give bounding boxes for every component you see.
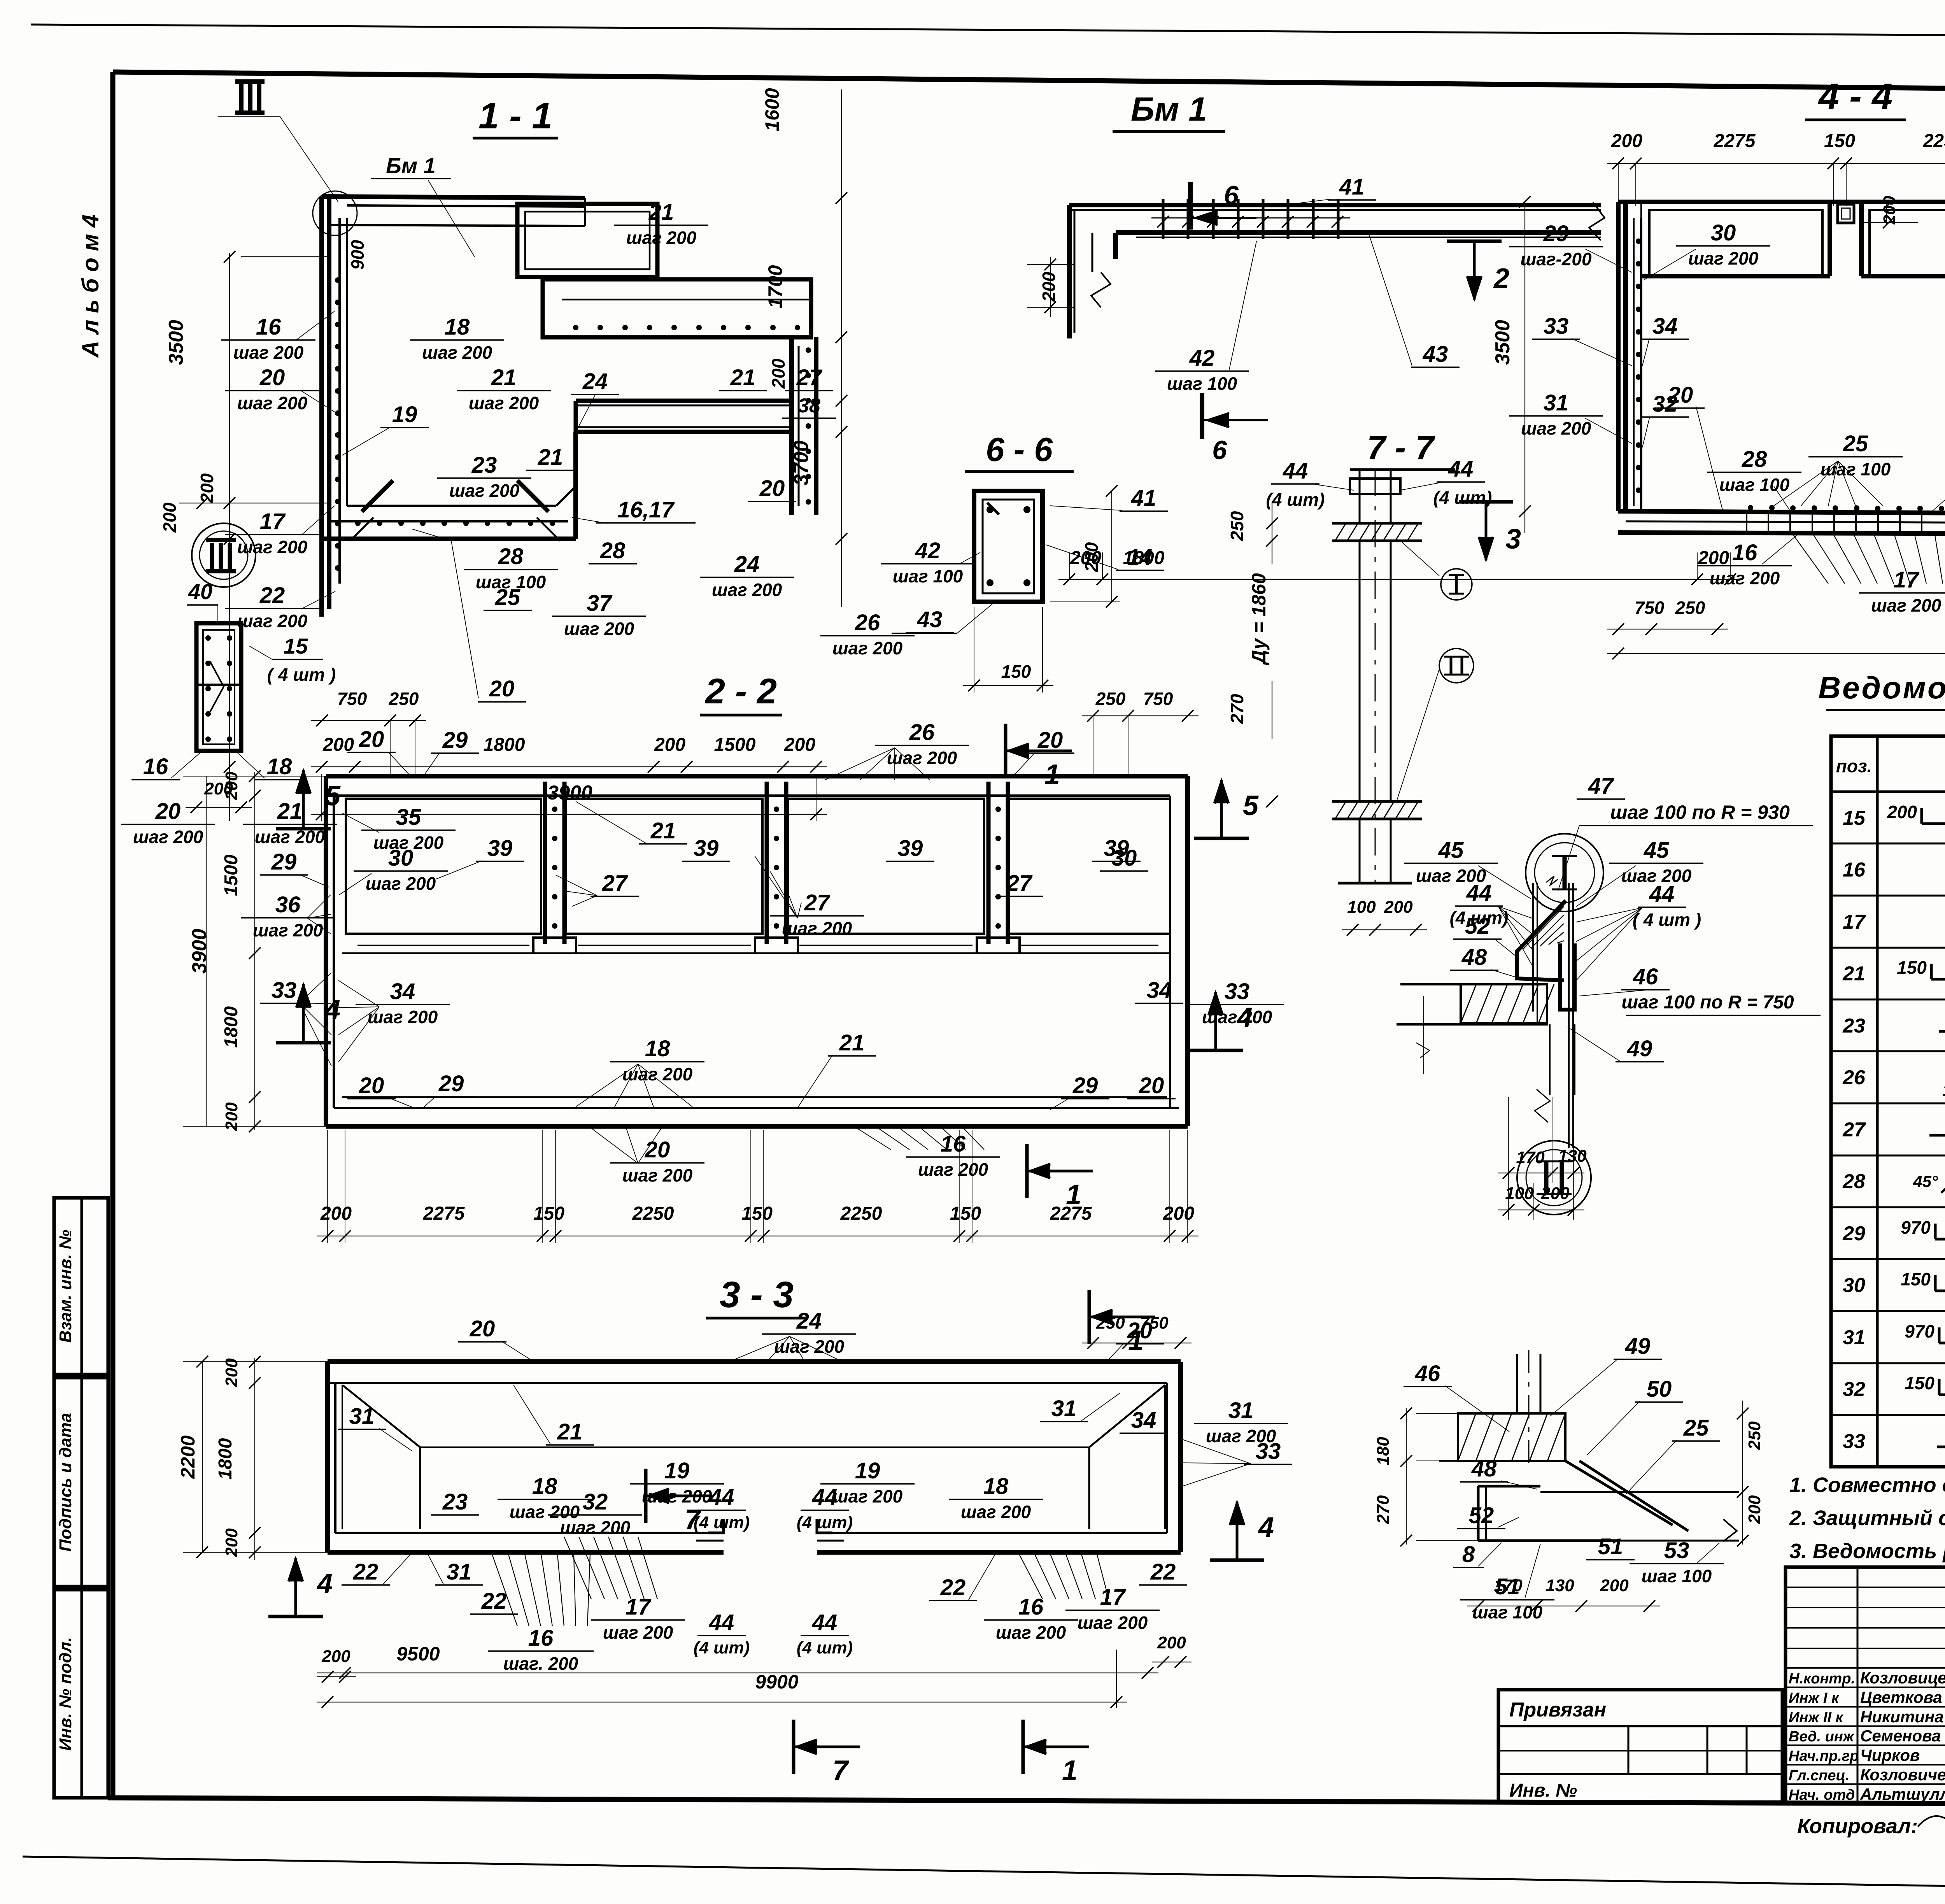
svg-text:( 4 шт ): ( 4 шт ): [1633, 910, 1701, 930]
svg-text:Козловичер: Козловичер: [1860, 1765, 1945, 1784]
section 3-3 middle joint hooks: [696, 1519, 844, 1541]
svg-text:шаг 200: шаг 200: [603, 1622, 673, 1643]
svg-text:200: 200: [1039, 272, 1059, 302]
node II labels: [1374, 1334, 1764, 1622]
svg-text:100: 100: [1347, 898, 1376, 917]
section 4-4 bay panel 2: [1861, 210, 1945, 276]
svg-text:25: 25: [495, 585, 520, 610]
section 4-4 middle wall with embedded part: [1830, 196, 1918, 276]
svg-text:Ведомость деталей: Ведомость деталей: [1818, 670, 1945, 705]
svg-text:4 - 4: 4 - 4: [1818, 76, 1892, 117]
svg-text:200: 200: [1163, 1203, 1194, 1224]
svg-text:200: 200: [222, 771, 241, 801]
svg-text:40: 40: [188, 579, 212, 604]
svg-text:250: 250: [1675, 598, 1705, 618]
svg-text:23: 23: [1842, 1015, 1865, 1037]
svg-text:49: 49: [1627, 1036, 1652, 1061]
svg-text:150: 150: [1942, 1081, 1945, 1100]
svg-text:100: 100: [1505, 1184, 1534, 1203]
svg-text:37: 37: [587, 591, 613, 616]
beam Bm1 title: [1113, 91, 1225, 131]
svg-text:шаг-200: шаг-200: [1520, 249, 1592, 269]
section 1-1 roman III mark: [218, 82, 338, 202]
svg-text:Бм 1: Бм 1: [1131, 91, 1207, 128]
svg-text:6: 6: [1212, 435, 1227, 465]
svg-text:(4 шт): (4 шт): [694, 1638, 750, 1657]
svg-text:21: 21: [839, 1030, 865, 1055]
section 3-3 dim 9500: [317, 1643, 1158, 1679]
section 1-1 bottom slab: [322, 432, 576, 541]
svg-text:45°: 45°: [1913, 1172, 1938, 1190]
svg-text:шаг 200: шаг 200: [449, 480, 520, 501]
svg-text:18: 18: [267, 754, 292, 779]
beam Bm1 dim chain: [1058, 548, 1741, 585]
svg-text:750: 750: [1143, 689, 1173, 709]
svg-text:16: 16: [1732, 540, 1758, 565]
svg-text:900: 900: [347, 240, 368, 270]
section 2-2 bottom dim chain: [317, 1130, 1199, 1243]
svg-text:9500: 9500: [396, 1643, 440, 1665]
svg-text:45: 45: [1644, 838, 1669, 863]
svg-text:200: 200: [197, 473, 217, 503]
svg-text:1600: 1600: [761, 88, 783, 131]
svg-text:Нач.пр.гр: Нач.пр.гр: [1789, 1748, 1859, 1764]
svg-text:53: 53: [1664, 1538, 1689, 1563]
svg-text:27: 27: [602, 871, 628, 896]
svg-text:шаг 200: шаг 200: [1710, 568, 1780, 588]
svg-text:26: 26: [1842, 1066, 1866, 1089]
svg-text:21: 21: [538, 445, 563, 470]
svg-text:Инж II к: Инж II к: [1789, 1709, 1843, 1726]
svg-text:9900: 9900: [755, 1671, 798, 1693]
svg-text:19: 19: [664, 1458, 690, 1483]
svg-text:шаг 200: шаг 200: [1688, 248, 1759, 268]
svg-text:5: 5: [325, 780, 341, 812]
node II circle: [1517, 1141, 1591, 1215]
svg-text:44: 44: [709, 1610, 734, 1635]
left margin stamp strip: [54, 1198, 108, 1798]
svg-text:Привязан: Привязан: [1509, 1699, 1606, 1721]
svg-text:( 4 шт ): ( 4 шт ): [267, 664, 336, 685]
svg-text:шаг 200: шаг 200: [422, 342, 492, 363]
svg-text:7 - 7: 7 - 7: [1367, 429, 1435, 466]
svg-text:20: 20: [489, 676, 515, 701]
svg-text:шаг 200: шаг 200: [133, 827, 203, 847]
svg-text:50: 50: [1647, 1376, 1672, 1402]
svg-text:2. Защитный слой бетона: 2. Защитный слой бетона - 25 мм: [1789, 1506, 1945, 1530]
svg-text:2: 2: [1493, 263, 1509, 294]
svg-text:33: 33: [1544, 314, 1569, 339]
svg-text:27: 27: [1006, 871, 1033, 896]
svg-text:15: 15: [1843, 807, 1866, 829]
privyazan block: [1498, 1690, 1782, 1802]
svg-text:52: 52: [1465, 913, 1490, 939]
svg-text:Чирков: Чирков: [1860, 1746, 1920, 1764]
svg-text:3700: 3700: [790, 440, 813, 486]
svg-text:16: 16: [1018, 1594, 1044, 1620]
svg-text:28: 28: [1742, 447, 1767, 472]
bottom annotations: [1797, 1808, 1945, 1839]
svg-text:шаг 200: шаг 200: [996, 1622, 1066, 1643]
svg-text:шаг 200: шаг 200: [366, 873, 436, 894]
svg-text:20: 20: [155, 799, 181, 824]
svg-text:36: 36: [275, 892, 301, 917]
section 3-3 bottom dims 200: [317, 1633, 1192, 1683]
svg-text:38: 38: [798, 394, 820, 417]
personnel table: [1786, 1567, 1945, 1804]
svg-text:250: 250: [389, 689, 419, 709]
section 3-3 left dim chain: [177, 1356, 331, 1560]
section 3-3 outer shell: [328, 1362, 1181, 1552]
node I detail drawing: [1397, 876, 1575, 1148]
section 4-4 top slab: [1618, 200, 1945, 204]
svg-text:1 - 1: 1 - 1: [478, 95, 552, 137]
svg-text:42: 42: [1189, 345, 1215, 371]
svg-text:шаг 200: шаг 200: [1078, 1613, 1148, 1633]
section 2-2 interior panels: [342, 782, 1170, 953]
svg-text:Инв. № подл.: Инв. № подл.: [56, 1637, 75, 1751]
svg-text:2275: 2275: [1050, 1203, 1092, 1224]
svg-text:6: 6: [1224, 181, 1239, 210]
detail column 15: [121, 623, 337, 847]
svg-text:3: 3: [1505, 524, 1521, 555]
svg-text:21: 21: [491, 365, 517, 390]
svg-text:Нач. отд: Нач. отд: [1789, 1787, 1855, 1803]
beam Bm1 labels: [1027, 174, 1460, 394]
svg-text:22: 22: [940, 1575, 966, 1600]
svg-text:1700: 1700: [764, 265, 786, 308]
svg-text:21: 21: [277, 799, 303, 824]
svg-text:4: 4: [324, 994, 340, 1026]
section 1-1 left wall: [322, 196, 347, 617]
svg-text:Семенова: Семенова: [1860, 1727, 1941, 1745]
svg-text:31: 31: [1051, 1396, 1077, 1421]
svg-text:2200: 2200: [177, 1435, 199, 1479]
svg-text:200: 200: [784, 735, 815, 755]
svg-text:(4 шт): (4 шт): [797, 1638, 853, 1657]
svg-text:25: 25: [1843, 431, 1868, 456]
svg-text:970: 970: [1901, 1217, 1931, 1238]
svg-text:шаг 200: шаг 200: [622, 1165, 693, 1185]
svg-text:44: 44: [812, 1485, 838, 1510]
svg-text:1800: 1800: [221, 1006, 242, 1048]
section 3-3 dim 9900: [317, 1650, 1127, 1708]
section 6-6 labels: [881, 485, 1168, 693]
svg-text:39: 39: [487, 836, 513, 861]
svg-text:48: 48: [1471, 1456, 1497, 1481]
svg-text:3900: 3900: [188, 929, 211, 974]
svg-text:шаг 200: шаг 200: [469, 393, 539, 413]
svg-text:750: 750: [337, 689, 367, 709]
svg-text:Копировал:: Копировал:: [1797, 1815, 1918, 1838]
svg-text:шаг 200: шаг 200: [368, 1007, 438, 1027]
svg-text:47: 47: [1588, 773, 1614, 799]
svg-text:27: 27: [1842, 1119, 1866, 1141]
section 2-2 left dim chain: [183, 770, 329, 1132]
section 1-1 right dim chain: [761, 88, 847, 607]
svg-text:46: 46: [1633, 964, 1658, 989]
svg-text:2275: 2275: [1714, 131, 1756, 151]
svg-text:150: 150: [1897, 957, 1927, 978]
svg-text:16: 16: [1843, 859, 1866, 881]
svg-text:970: 970: [1905, 1321, 1934, 1341]
svg-text:2 - 2: 2 - 2: [704, 671, 777, 711]
section 7-7 labels: [1227, 456, 1492, 936]
svg-text:200: 200: [321, 1647, 350, 1666]
svg-text:29: 29: [1543, 221, 1569, 246]
svg-text:46: 46: [1415, 1361, 1440, 1386]
svg-text:200: 200: [1745, 1495, 1764, 1524]
svg-text:6 - 6: 6 - 6: [986, 431, 1053, 468]
svg-text:Гл.спец.: Гл.спец.: [1789, 1767, 1850, 1784]
svg-text:шаг 200: шаг 200: [560, 1517, 631, 1538]
details table left: [1831, 736, 1945, 1467]
svg-text:200: 200: [1157, 1633, 1186, 1652]
svg-text:31: 31: [447, 1559, 472, 1585]
svg-text:шаг 200: шаг 200: [712, 580, 782, 600]
svg-text:Цветкова: Цветкова: [1860, 1688, 1942, 1706]
svg-text:1: 1: [1062, 1755, 1078, 1786]
svg-text:2275: 2275: [423, 1203, 465, 1224]
svg-text:17: 17: [1100, 1585, 1126, 1610]
section 2-2 outer shell: [326, 776, 1188, 1126]
svg-text:18: 18: [983, 1474, 1009, 1499]
svg-text:20: 20: [259, 365, 285, 390]
section 1-1 right wall: [792, 337, 816, 515]
svg-text:34: 34: [1131, 1408, 1156, 1433]
svg-text:24: 24: [796, 1308, 822, 1334]
section 1-1 labels right: [347, 153, 915, 702]
section 3-3 labels: [268, 1290, 1292, 1786]
svg-text:18: 18: [645, 1036, 670, 1061]
svg-text:18: 18: [532, 1474, 557, 1499]
svg-text:32: 32: [1843, 1378, 1865, 1401]
svg-text:750: 750: [1635, 598, 1665, 618]
svg-text:150: 150: [741, 1203, 773, 1224]
svg-text:44: 44: [1466, 880, 1492, 906]
svg-text:3. Ведомость расхода стали: 3. Ведомость расхода стали см. л. КЖ - 9: [1789, 1539, 1945, 1563]
svg-text:22: 22: [259, 583, 285, 608]
notes: [1789, 1473, 1945, 1563]
node II detail drawing: [1439, 1350, 1739, 1541]
svg-text:750: 750: [1140, 1313, 1169, 1332]
svg-text:4: 4: [1236, 1002, 1253, 1033]
svg-text:шаг 100 по R = 750: шаг 100 по R = 750: [1621, 992, 1794, 1013]
svg-text:43: 43: [1423, 342, 1448, 367]
svg-text:шаг 200: шаг 200: [918, 1159, 988, 1180]
section title 6-6: [965, 431, 1074, 472]
svg-text:42: 42: [915, 538, 941, 563]
svg-text:1500: 1500: [221, 854, 242, 896]
svg-text:21: 21: [730, 365, 756, 390]
svg-text:200: 200: [768, 358, 789, 389]
svg-text:24: 24: [582, 369, 608, 394]
svg-text:3 - 3: 3 - 3: [720, 1274, 794, 1315]
svg-text:шаг 100: шаг 100: [1167, 373, 1237, 394]
section title 2-2: [700, 671, 782, 715]
node I circle: [1526, 834, 1603, 912]
svg-text:1800: 1800: [215, 1438, 236, 1480]
svg-text:шаг 200: шаг 200: [832, 638, 903, 658]
svg-text:43: 43: [917, 607, 943, 632]
section 1-1 right upper panel: [517, 204, 657, 277]
svg-text:21: 21: [557, 1419, 583, 1445]
section 1-1 labels left: [221, 311, 429, 631]
section 4-4 bottom slab: [1618, 505, 1945, 534]
svg-text:52: 52: [1469, 1503, 1494, 1528]
svg-text:29: 29: [271, 849, 297, 875]
svg-text:25: 25: [1683, 1415, 1709, 1441]
section 1-1 middle slab: [576, 401, 792, 432]
svg-text:7: 7: [832, 1755, 849, 1786]
svg-text:33: 33: [1256, 1439, 1281, 1464]
svg-text:44: 44: [1649, 882, 1675, 907]
svg-text:44: 44: [812, 1610, 838, 1635]
svg-text:3500: 3500: [1491, 320, 1514, 365]
svg-text:Ду = 1860: Ду = 1860: [1248, 573, 1270, 666]
section 3-3 top right step dims: [1082, 1313, 1192, 1349]
svg-text:31: 31: [1843, 1326, 1865, 1349]
svg-text:29: 29: [1072, 1073, 1098, 1098]
svg-text:150: 150: [950, 1203, 981, 1224]
svg-text:А л ь б о м 4: А л ь б о м 4: [77, 214, 103, 358]
svg-text:3500: 3500: [165, 320, 187, 365]
svg-text:270: 270: [1374, 1495, 1393, 1524]
section 1-1 overall dim 3900: [311, 774, 827, 821]
svg-text:19: 19: [392, 402, 417, 427]
svg-text:39: 39: [898, 836, 923, 861]
svg-text:34: 34: [390, 979, 415, 1004]
svg-text:поз.: поз.: [1836, 756, 1872, 776]
svg-text:180: 180: [1374, 1437, 1393, 1466]
svg-text:2250: 2250: [1923, 131, 1945, 151]
svg-text:250: 250: [1745, 1421, 1764, 1450]
details list title: [1818, 670, 1945, 710]
svg-text:20: 20: [359, 727, 384, 752]
svg-text:4: 4: [1258, 1512, 1274, 1543]
svg-text:14: 14: [1127, 545, 1153, 570]
svg-text:200: 200: [159, 502, 180, 533]
svg-text:шаг 200: шаг 200: [626, 228, 697, 248]
svg-text:200: 200: [1600, 1576, 1629, 1595]
svg-text:2250: 2250: [632, 1203, 674, 1224]
svg-text:200: 200: [222, 1102, 241, 1131]
svg-text:44: 44: [1448, 456, 1474, 482]
svg-text:шаг 200: шаг 200: [253, 920, 323, 940]
svg-text:150: 150: [533, 1203, 564, 1224]
svg-text:(4 шт): (4 шт): [694, 1513, 750, 1532]
detail III circle: [187, 523, 256, 622]
svg-text:3900: 3900: [547, 782, 592, 804]
svg-text:150: 150: [1901, 1269, 1931, 1289]
svg-text:1. Совместно с данным см. л: 1. Совместно с данным см. л. КЖ - 6,7,9: [1789, 1473, 1945, 1497]
svg-text:28: 28: [1842, 1170, 1865, 1193]
svg-text:41: 41: [1339, 174, 1365, 200]
svg-text:шаг 200: шаг 200: [237, 393, 308, 413]
sections 4-4/5-5 top dim chain: [1607, 131, 1945, 206]
svg-text:26: 26: [909, 720, 935, 745]
svg-text:48: 48: [1461, 945, 1487, 970]
svg-text:33: 33: [1843, 1430, 1865, 1453]
svg-text:39: 39: [694, 836, 719, 861]
svg-text:шаг 100: шаг 100: [1719, 475, 1790, 495]
overall dim 9900 for 4-4: [1607, 607, 1945, 661]
page outer border bottom: [23, 1857, 1945, 1897]
svg-text:20: 20: [1139, 1073, 1164, 1098]
beam Bm1 section marks 6: [1190, 181, 1268, 465]
svg-text:шаг 200: шаг 200: [1871, 595, 1941, 615]
svg-text:30: 30: [1711, 220, 1736, 245]
section title 1-1: [473, 95, 558, 138]
svg-text:41: 41: [1131, 486, 1156, 511]
svg-text:1500: 1500: [714, 735, 756, 755]
svg-text:32: 32: [583, 1489, 608, 1515]
svg-text:250: 250: [1095, 689, 1126, 709]
section 2-2 labels: [241, 689, 1284, 1210]
svg-text:29: 29: [442, 728, 468, 753]
svg-text:200: 200: [1081, 542, 1102, 572]
svg-text:8: 8: [1462, 1542, 1475, 1567]
section 1-1 top beam Bm1 junction: [313, 191, 585, 235]
section title 7-7: [1350, 429, 1455, 470]
svg-text:200: 200: [320, 1203, 352, 1224]
svg-text:20: 20: [359, 1073, 384, 1098]
svg-text:130: 130: [1545, 1576, 1574, 1595]
svg-text:33: 33: [272, 978, 297, 1003]
svg-text:Инв. №: Инв. №: [1509, 1780, 1577, 1801]
svg-text:200: 200: [1887, 802, 1917, 822]
svg-text:150: 150: [1824, 131, 1855, 151]
svg-text:21: 21: [648, 200, 674, 225]
section 3-3 inner bevel walls: [342, 1385, 1165, 1529]
svg-text:20: 20: [645, 1137, 670, 1162]
svg-text:шаг 200: шаг 200: [887, 748, 957, 768]
svg-text:Козловицер: Козловицер: [1860, 1669, 1945, 1687]
section 4-4 left marks and dims: [1447, 196, 1728, 635]
svg-text:30: 30: [388, 845, 414, 871]
svg-text:22: 22: [1150, 1559, 1176, 1585]
svg-text:18: 18: [445, 314, 470, 340]
svg-text:шаг 100 по R = 930: шаг 100 по R = 930: [1610, 801, 1790, 823]
section 6-6 body: [974, 491, 1043, 602]
svg-text:200: 200: [1384, 898, 1413, 917]
svg-text:29: 29: [1842, 1222, 1865, 1245]
svg-text:250: 250: [1096, 1313, 1125, 1332]
svg-text:250: 250: [1227, 511, 1247, 541]
section 2-2 top-left corner step dims: [311, 689, 426, 778]
svg-text:200: 200: [654, 735, 685, 755]
svg-text:20: 20: [1668, 382, 1693, 408]
svg-text:17: 17: [260, 509, 286, 534]
svg-text:16: 16: [528, 1625, 554, 1651]
svg-text:17: 17: [1894, 567, 1920, 593]
svg-text:51: 51: [1598, 1534, 1623, 1559]
svg-text:Альтшуллер: Альтшуллер: [1860, 1785, 1945, 1803]
section 4-4 bay panel 1: [1641, 202, 1830, 276]
svg-text:28: 28: [600, 538, 626, 563]
section 1-1 right lower panel: [543, 279, 811, 337]
svg-text:22: 22: [481, 1588, 507, 1614]
svg-text:шаг 200: шаг 200: [1521, 418, 1591, 438]
svg-text:20: 20: [470, 1316, 495, 1341]
svg-text:шаг 200: шаг 200: [961, 1502, 1031, 1522]
svg-text:150: 150: [1001, 661, 1031, 682]
svg-text:(4 шт): (4 шт): [1266, 489, 1325, 510]
svg-text:22: 22: [353, 1559, 378, 1585]
svg-text:1: 1: [1044, 759, 1060, 790]
svg-text:34: 34: [1652, 314, 1678, 339]
svg-text:33: 33: [1225, 979, 1250, 1004]
